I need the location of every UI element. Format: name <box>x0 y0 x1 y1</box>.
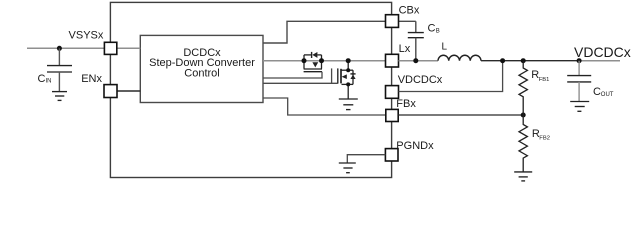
node COUT top <box>577 58 582 63</box>
transistor Q1 high-side PMOS <box>304 52 322 72</box>
pin VSYSx <box>104 42 116 54</box>
svg-text:CBx: CBx <box>399 5 420 17</box>
label COUT <box>593 86 614 98</box>
label RFB1 <box>531 69 549 83</box>
node Q1 drain <box>319 58 324 63</box>
wire FBx pin to divider <box>398 114 523 116</box>
label CBx <box>399 5 420 17</box>
svg-text:OUT: OUT <box>601 92 614 98</box>
ground PGNDx <box>339 163 356 173</box>
label RFB2 <box>532 128 550 142</box>
wire Lx pin to inductor <box>399 60 439 62</box>
svg-text:C: C <box>428 22 436 34</box>
IC outer boundary box <box>110 2 391 177</box>
wire Q2 gate to control block <box>263 68 338 83</box>
wire ENx pin to control block <box>117 90 140 92</box>
label Lx <box>399 43 411 55</box>
svg-text:ENx: ENx <box>81 73 102 85</box>
inductor L <box>438 55 481 60</box>
wire VDCDCx pin sense to output node <box>399 61 503 92</box>
wire switch rail control block to Lx pin <box>263 60 386 62</box>
node Q2 drain top <box>346 58 351 63</box>
label CIN <box>38 73 52 85</box>
svg-text:L: L <box>442 41 448 52</box>
node Q2 drain stub <box>346 68 350 72</box>
resistor RFB2 <box>519 115 527 172</box>
label L <box>442 41 448 52</box>
node Q1 source <box>302 58 307 63</box>
label VDCDCx output <box>574 44 631 60</box>
wire VSYSx pin to control block <box>117 47 141 49</box>
svg-text:Control: Control <box>184 67 219 79</box>
svg-text:C: C <box>593 86 601 98</box>
label VSYSx <box>69 29 104 41</box>
wire VSYSx input <box>27 47 104 49</box>
label FBx <box>396 98 416 110</box>
svg-text:FB1: FB1 <box>539 77 550 83</box>
svg-text:IN: IN <box>46 78 52 84</box>
node Q2 source stub <box>346 82 350 86</box>
node CIN junction <box>57 46 62 51</box>
node RFB1 top <box>521 58 526 63</box>
label ENx <box>81 73 102 85</box>
capacitor COUT <box>567 61 591 101</box>
node CB to Lx junction <box>413 58 418 63</box>
resistor RFB1 <box>519 61 527 115</box>
capacitor CB <box>408 21 424 60</box>
svg-text:VDCDCx: VDCDCx <box>398 74 443 86</box>
svg-text:Lx: Lx <box>399 43 411 55</box>
label VDCDCx pin <box>398 74 443 86</box>
ground Q2 source <box>339 99 358 110</box>
svg-text:PGNDx: PGNDx <box>396 140 434 152</box>
svg-text:FBx: FBx <box>396 98 416 110</box>
label PGNDx <box>396 140 434 152</box>
wire control block to FBx pin <box>263 98 386 115</box>
pin CBx <box>386 15 399 28</box>
ground RFB2 <box>514 172 532 181</box>
wire Q1 gate to control block <box>263 72 322 78</box>
control block U1 DCDCx Step-Down Converter Control <box>140 35 263 102</box>
pin FBx <box>386 109 398 121</box>
capacitor CIN <box>47 48 72 91</box>
ground CIN <box>52 92 67 101</box>
svg-text:B: B <box>436 28 440 34</box>
transistor Q2 low-side NMOS <box>338 61 356 99</box>
svg-text:FB2: FB2 <box>539 136 550 142</box>
ground COUT <box>570 102 589 112</box>
wire PGNDx pin to ground <box>347 155 385 163</box>
wire CBx pin to capacitor CB <box>399 20 416 22</box>
wire output end segment <box>579 60 620 62</box>
svg-text:VDCDCx: VDCDCx <box>574 44 631 60</box>
node FB divider junction <box>521 113 526 118</box>
svg-text:C: C <box>38 73 46 85</box>
label CB <box>428 22 440 34</box>
pin ENx <box>104 85 117 98</box>
pin Lx <box>386 54 399 67</box>
pin PGNDx <box>385 149 398 161</box>
wire inductor to output <box>481 60 579 62</box>
pin VDCDCx <box>386 86 399 99</box>
node output to VDCDC sense <box>500 58 505 63</box>
wire control block to CBx pin <box>263 21 386 43</box>
svg-text:VSYSx: VSYSx <box>69 29 104 41</box>
